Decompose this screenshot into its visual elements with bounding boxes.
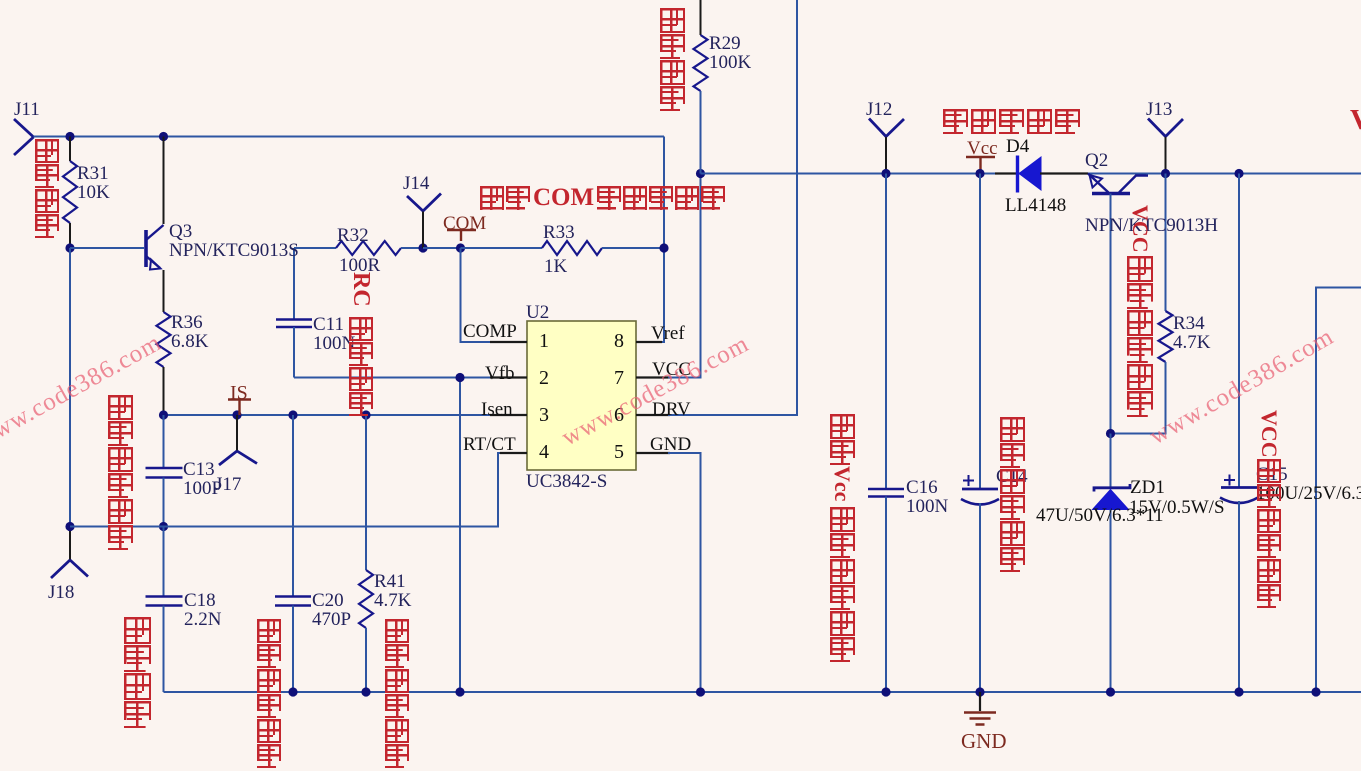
net label IS tick xyxy=(228,400,251,416)
pin name GND xyxy=(650,435,691,454)
connector J18 xyxy=(51,527,88,579)
value C16 label xyxy=(906,478,948,516)
wire ground rail xyxy=(164,691,1361,693)
wire Q3 emitter lead xyxy=(163,270,165,312)
node junction Q3 collector xyxy=(159,132,168,141)
node junction R33/Vref net xyxy=(659,243,668,252)
node junction C20 top xyxy=(288,410,297,419)
wire Q2 collector to J13 node xyxy=(1146,173,1166,175)
node junction R31 bottom / Q3 base tee xyxy=(65,243,74,252)
wire Vfb net horizontal xyxy=(294,377,492,379)
resistor R32 xyxy=(336,241,401,255)
wire R33 right lead xyxy=(602,247,664,249)
wire Isen net horizontal xyxy=(164,414,493,416)
node junction C13/C18 xyxy=(159,522,168,531)
wire GND pin5 to rail xyxy=(668,453,701,692)
connector J13 xyxy=(1148,119,1183,174)
wire Q3 collector lead xyxy=(163,137,165,225)
value C20 label xyxy=(312,591,351,629)
label C15 xyxy=(1256,465,1288,484)
wire top-left horizontal net J11-Vref xyxy=(34,136,665,138)
label J12 xyxy=(866,100,892,119)
node junction rail C20 xyxy=(288,687,297,696)
capacitor C13 xyxy=(146,468,183,478)
capacitor C18 xyxy=(146,597,183,606)
wire COMP branch xyxy=(461,248,493,342)
annotation RC compensation network column xyxy=(349,272,373,316)
pin 7 stub VCC xyxy=(636,376,670,378)
label J14 xyxy=(403,174,429,193)
value ZD1 rating xyxy=(1129,498,1225,517)
annotation chip COM supply resistor (Chinese) xyxy=(480,185,725,210)
wire R36 bottom lead xyxy=(163,367,165,415)
annotation VCC storage cap column xyxy=(1258,410,1280,458)
value R33 value xyxy=(544,257,567,276)
node junction Vfb xyxy=(455,373,464,382)
pin number 5 xyxy=(614,442,624,462)
node junction R41 top xyxy=(361,410,370,419)
pin name Vfb xyxy=(485,364,515,383)
node junction rail GND symbol xyxy=(975,687,984,696)
value C18 label xyxy=(184,591,221,629)
capacitor C14 electrolytic xyxy=(961,475,999,505)
transistor Q3 xyxy=(146,225,164,270)
node junction R29 bottom xyxy=(696,169,705,178)
wire R41 top lead xyxy=(365,415,367,570)
wire R31 bottom lead xyxy=(69,223,71,248)
watermark www.code386.com right xyxy=(1145,323,1339,451)
wire ZD1 top lead xyxy=(1110,434,1112,488)
pin name COMP xyxy=(463,322,517,341)
value Q2 type xyxy=(1085,216,1218,235)
connector J17 xyxy=(219,415,257,465)
annotation timing cap column xyxy=(124,617,151,644)
node junction ZD1/R34/Q2 base xyxy=(1106,429,1115,438)
value R41 label xyxy=(374,572,411,610)
pin 6 stub DRV xyxy=(636,414,670,416)
capacitor C15 electrolytic xyxy=(1220,475,1258,504)
wire VCC pin7 to R29 node xyxy=(668,174,701,378)
wire R29 top lead xyxy=(700,0,702,35)
pin number 2 xyxy=(539,368,549,388)
node junction rail box xyxy=(1311,687,1320,696)
label C14 xyxy=(996,467,1028,486)
annotation slope compensation cap column xyxy=(108,395,133,420)
annotation timing resistor column xyxy=(35,139,59,163)
resistor R29 xyxy=(694,35,708,91)
resistor R33 xyxy=(542,241,602,255)
value R32 value xyxy=(339,256,380,275)
wire right box edge xyxy=(1316,288,1361,693)
pin number 6 xyxy=(614,405,624,425)
node junction J18 / RT-CT net xyxy=(65,522,74,531)
wire D4 anode lead xyxy=(995,172,1017,174)
wire Vfb ground drop x460 xyxy=(459,378,461,693)
net label IS xyxy=(230,383,248,403)
wire R33 left lead xyxy=(461,247,543,249)
value C13 label xyxy=(183,460,222,498)
node junction rail C15 xyxy=(1234,687,1243,696)
resistor R36 xyxy=(157,312,171,367)
node junction Vcc tap xyxy=(975,169,984,178)
connector J14 xyxy=(407,194,441,249)
wire C15 top lead xyxy=(1238,174,1240,488)
value R29 label xyxy=(709,34,751,72)
annotation startup resistor column xyxy=(660,8,685,33)
node junction J12 xyxy=(881,169,890,178)
pin name RT/CT xyxy=(463,435,516,454)
wire D4 to Q2 emitter xyxy=(1040,172,1088,174)
wire Q3 base xyxy=(70,247,144,249)
pin name VCC xyxy=(652,360,691,379)
value R33 label xyxy=(543,223,575,242)
wire C18 top lead xyxy=(163,527,165,597)
capacitor C11 xyxy=(276,320,312,328)
pin number 1 xyxy=(539,331,549,351)
pin number 7 xyxy=(614,368,624,388)
net label V cut at right edge xyxy=(1350,106,1361,135)
wire RT/CT net xyxy=(70,453,500,527)
connector J12 xyxy=(869,119,904,174)
diode D4 xyxy=(1018,156,1042,193)
net label Vcc tick xyxy=(966,157,995,171)
annotation isolation diode (Chinese) xyxy=(943,109,1080,134)
wire top-right Vcc rail xyxy=(701,173,1361,175)
pin 3 stub Isen xyxy=(490,414,527,416)
wire C13 top lead xyxy=(163,415,165,468)
resistor R34 xyxy=(1159,311,1173,362)
label J11 xyxy=(14,100,40,119)
wire C11 bottom lead xyxy=(293,327,295,378)
resistor R31 xyxy=(63,161,77,223)
value C14 rating xyxy=(1036,506,1164,525)
value U2 part UC3842-S xyxy=(526,472,607,491)
label J17 xyxy=(215,475,241,494)
wire C13 bottom lead xyxy=(163,478,165,527)
wire C20 bottom lead xyxy=(292,606,294,693)
net label GND text xyxy=(961,731,1007,752)
label ZD1 xyxy=(1130,478,1165,497)
net label COM tick xyxy=(447,230,476,241)
pin 2 stub Vfb xyxy=(490,376,527,378)
wire DRV to top edge xyxy=(668,0,797,415)
value R32 label xyxy=(337,226,369,245)
pin 1 stub COMP xyxy=(490,341,527,343)
wire R34 top lead xyxy=(1165,174,1167,312)
value Q3 type xyxy=(169,241,299,260)
capacitor C16 xyxy=(868,489,904,497)
wire R31 top lead xyxy=(69,137,71,162)
pin name Vref xyxy=(651,324,685,343)
label U2 xyxy=(526,303,549,322)
annotation startup electrolytic cap column xyxy=(1000,417,1025,442)
value D4 LL4148 xyxy=(1005,196,1066,215)
zener ZD1 xyxy=(1093,484,1131,510)
pin 5 stub GND xyxy=(636,452,670,454)
label Q3 xyxy=(169,222,192,241)
label J18 xyxy=(48,583,74,602)
value C15 rating xyxy=(1256,484,1361,503)
label D4 xyxy=(1006,137,1029,156)
wire C11 top lead from R32 xyxy=(293,248,295,320)
op-amp U2 body UC3842 xyxy=(527,321,636,470)
wire R34 bottom lead to base node xyxy=(1111,362,1166,434)
node junction R36/Isen xyxy=(159,410,168,419)
wire C14 top lead xyxy=(979,174,981,490)
wire C16 top lead xyxy=(885,174,887,490)
annotation VCC linear regulator column xyxy=(1129,205,1151,255)
net label Vcc xyxy=(967,139,998,158)
node junction C15 top xyxy=(1234,169,1243,178)
value R34 label xyxy=(1173,314,1210,352)
pin number 3 xyxy=(539,405,549,425)
label J13 xyxy=(1146,100,1172,119)
annotation chip Vcc input ceramic cap column xyxy=(830,414,855,439)
ground GND symbol xyxy=(964,692,996,725)
wire R32 right lead xyxy=(401,247,423,249)
node junction J13/Q2 collector xyxy=(1161,169,1170,178)
node junction rail ZD1 xyxy=(1106,687,1115,696)
wire R29 bottom lead xyxy=(700,91,702,174)
wire vertical x664 down to Vref corner xyxy=(662,137,664,343)
value R31 label xyxy=(77,164,110,202)
watermark www.code386.com center xyxy=(557,330,754,452)
annotation current sense divider column xyxy=(385,619,409,643)
transistor Q2 xyxy=(1088,174,1148,194)
net label COM xyxy=(443,214,486,233)
label Q2 xyxy=(1085,151,1108,170)
connector J11 xyxy=(14,119,34,155)
wire R32 left lead xyxy=(294,247,336,249)
wire C15 bottom lead xyxy=(1238,501,1240,692)
wire Q2 base drop xyxy=(1110,194,1112,434)
watermark www.code386.com left xyxy=(0,329,167,454)
pin 4 stub RT/CT xyxy=(500,452,527,454)
wire left vertical x70 to J18 xyxy=(69,248,71,527)
node junction COM xyxy=(456,243,465,252)
wire C16 bottom lead xyxy=(885,497,887,693)
node junction rail R41 xyxy=(361,687,370,696)
annotation current sense denoise column xyxy=(257,619,281,643)
node junction rail C16 xyxy=(881,687,890,696)
wire C18 bottom lead to rail xyxy=(163,606,165,693)
wire J14 to COM xyxy=(423,247,461,249)
node junction R31 top xyxy=(65,132,74,141)
node junction J14/R32 xyxy=(418,243,427,252)
pin number 8 xyxy=(614,331,624,351)
value R36 label xyxy=(171,313,208,351)
wire ZD1 bottom lead xyxy=(1110,510,1112,693)
wire C20 top lead xyxy=(292,415,294,597)
pin 8 stub Vref xyxy=(636,341,662,343)
value C11 label xyxy=(313,315,355,353)
node junction rail chip GND xyxy=(696,687,705,696)
node junction IS tap xyxy=(232,410,241,419)
capacitor C20 xyxy=(275,597,311,606)
pin number 4 xyxy=(539,442,549,462)
pin name DRV xyxy=(652,400,691,419)
wire R41 bottom lead xyxy=(365,628,367,692)
wire C14 bottom lead xyxy=(979,503,981,692)
resistor R41 xyxy=(359,570,373,628)
node junction rail x460 xyxy=(455,687,464,696)
pin name Isen xyxy=(481,400,513,419)
